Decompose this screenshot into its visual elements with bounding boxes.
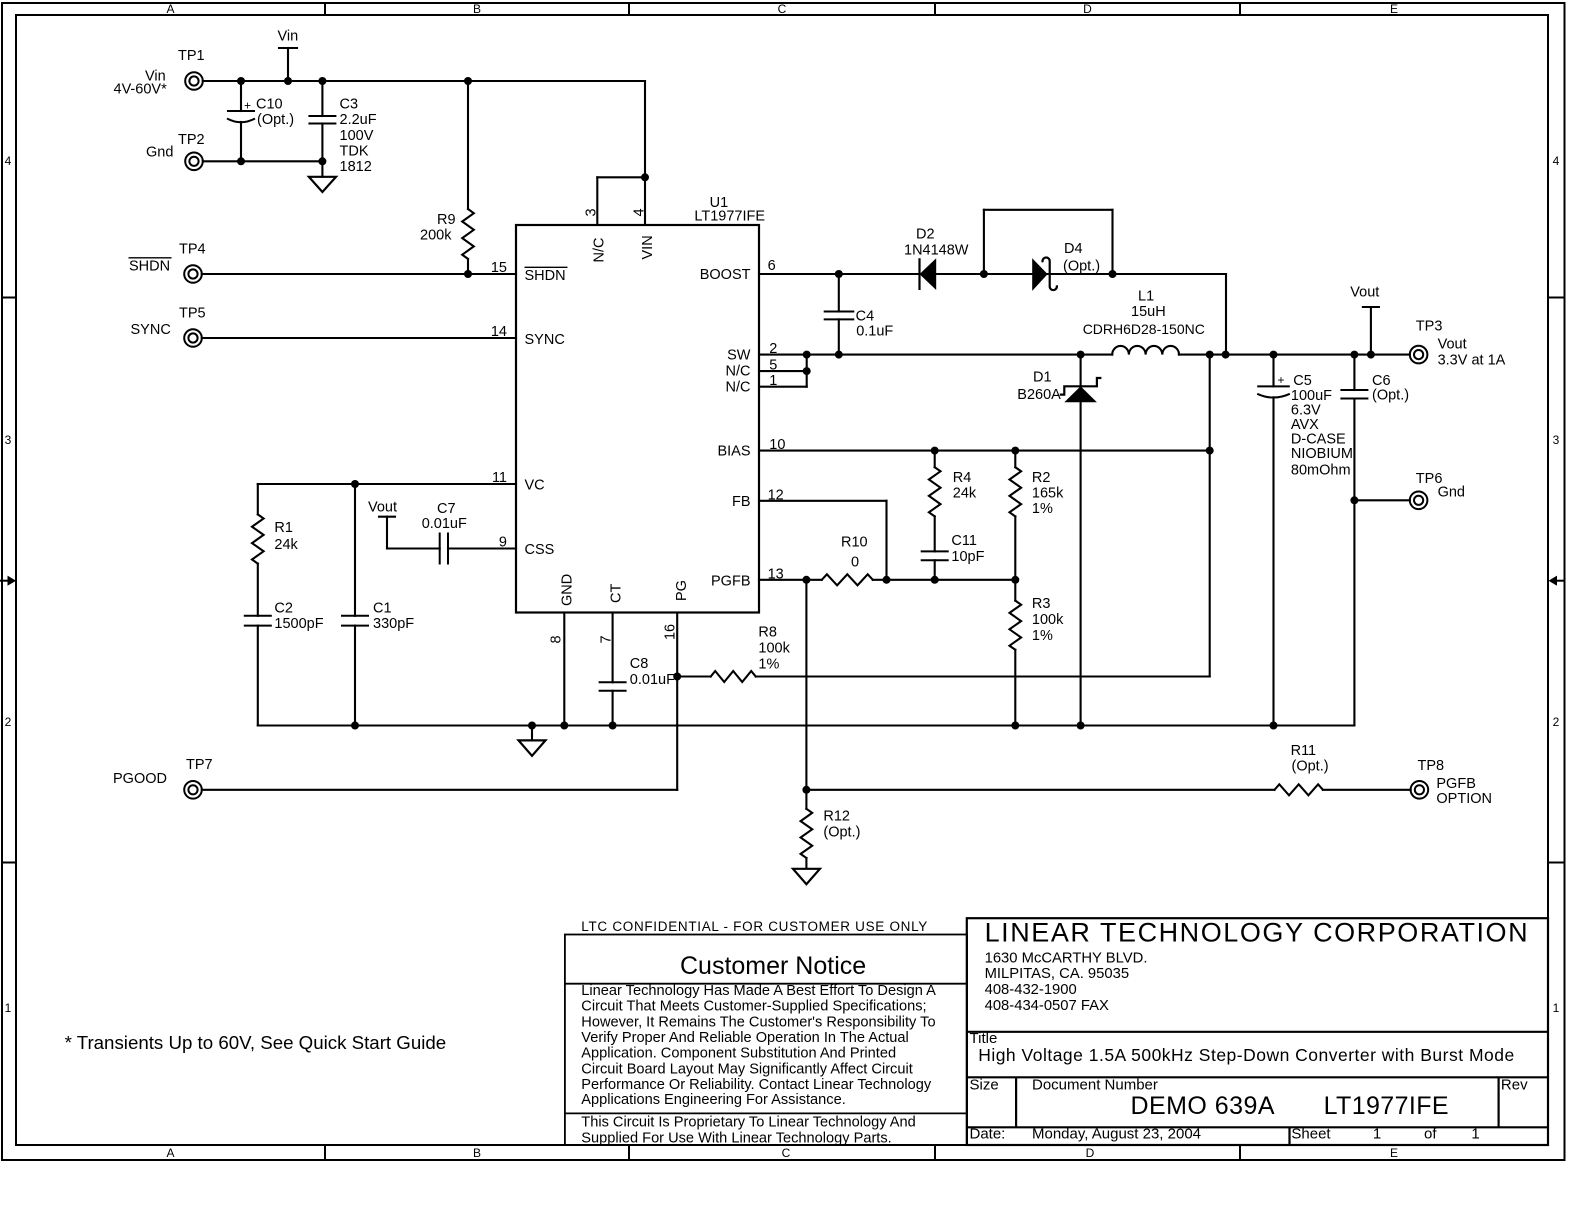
svg-text:1: 1 <box>5 1001 12 1015</box>
svg-text:2: 2 <box>1553 715 1560 729</box>
svg-text:165k: 165k <box>1032 486 1064 502</box>
svg-text:Document Number: Document Number <box>1032 1076 1158 1093</box>
svg-text:This Circuit Is Proprietary To: This Circuit Is Proprietary To Linear Te… <box>581 1115 915 1131</box>
svg-text:TP1: TP1 <box>178 48 205 64</box>
svg-text:(Opt.): (Opt.) <box>823 825 860 841</box>
svg-text:408-434-0507 FAX: 408-434-0507 FAX <box>985 998 1109 1014</box>
U1 pin 14 SYNC <box>491 324 565 348</box>
svg-text:B260A: B260A <box>1017 387 1061 403</box>
U1 pin 6 BOOST <box>700 258 776 283</box>
U1 pin 8 GND (bottom) <box>549 574 576 644</box>
svg-text:TP7: TP7 <box>186 757 213 773</box>
svg-text:C: C <box>782 1146 791 1160</box>
svg-text:408-432-1900: 408-432-1900 <box>985 982 1077 998</box>
wire N/C pin 3 jog to VIN <box>597 177 645 225</box>
svg-text:4: 4 <box>1553 154 1560 168</box>
svg-text:Vin: Vin <box>278 29 299 45</box>
svg-text:Gnd: Gnd <box>146 145 173 161</box>
svg-text:R3: R3 <box>1032 596 1051 612</box>
svg-text:24k: 24k <box>274 537 298 553</box>
svg-text:3.3V at 1A: 3.3V at 1A <box>1438 353 1506 369</box>
power symbol Vout (at TP3) <box>1350 285 1379 355</box>
svg-text:330pF: 330pF <box>373 616 414 632</box>
resistor R3 100k <box>1010 580 1065 726</box>
wire BIAS net <box>759 447 1214 455</box>
wire GND pin 8 stub <box>563 613 565 726</box>
title block <box>967 918 1548 1145</box>
U1 pin 7 CT (bottom) <box>599 584 625 644</box>
U1 pin 5 N/C <box>726 358 778 380</box>
wire BOOST net <box>759 270 1226 355</box>
svg-text:TP2: TP2 <box>178 132 205 148</box>
svg-text:N/C: N/C <box>726 364 751 380</box>
ground symbol below C3 <box>309 161 336 192</box>
svg-text:A: A <box>166 1146 174 1160</box>
wire VC net <box>258 480 516 514</box>
svg-text:TP5: TP5 <box>179 306 206 322</box>
wire SHDN net <box>202 270 516 278</box>
svg-text:R4: R4 <box>953 470 972 486</box>
diode D1 B260A <box>1017 355 1101 726</box>
svg-text:1: 1 <box>1471 1126 1479 1143</box>
svg-text:C1: C1 <box>373 601 392 617</box>
test point TP3 <box>1410 319 1506 369</box>
U1 pin 11 VC <box>492 470 545 494</box>
svg-text:R10: R10 <box>841 535 868 551</box>
svg-text:PGFB: PGFB <box>711 574 750 590</box>
test point TP4 <box>129 242 206 283</box>
svg-text:Rev: Rev <box>1501 1076 1528 1093</box>
power symbol Vout (at C7) <box>368 500 397 549</box>
svg-text:LT1977IFE: LT1977IFE <box>1324 1092 1449 1120</box>
wire Vin net top rail <box>203 77 649 225</box>
svg-text:24k: 24k <box>953 486 977 502</box>
U1 pin 1 N/C <box>726 373 778 396</box>
svg-text:TP3: TP3 <box>1416 319 1443 335</box>
U1 pin 13 PGFB <box>711 567 784 590</box>
svg-text:C11: C11 <box>951 533 977 549</box>
svg-text:1%: 1% <box>1032 501 1053 517</box>
resistor R9 <box>420 81 474 274</box>
svg-text:R12: R12 <box>823 809 850 825</box>
diode D4 (Opt.) <box>1032 241 1100 291</box>
svg-text:B: B <box>473 1146 481 1160</box>
resistor R4 24k <box>929 451 977 552</box>
test point TP5 <box>131 306 206 347</box>
U1 pin 12 FB <box>732 488 784 511</box>
wire SW / Vout rail <box>759 351 1410 359</box>
U1 pin 15 SHDN <box>491 260 568 284</box>
U1 pin 2 SW <box>727 341 777 364</box>
svg-text:80mOhm: 80mOhm <box>1291 463 1351 479</box>
svg-text:Linear Technology Has Made A B: Linear Technology Has Made A Best Effort… <box>581 983 936 999</box>
svg-text:C8: C8 <box>630 656 649 672</box>
svg-text:C10: C10 <box>256 97 283 113</box>
wire PGFB net (pin 13) <box>759 576 822 584</box>
U1 pin 10 BIAS <box>717 437 785 460</box>
svg-text:SYNC: SYNC <box>131 322 171 338</box>
svg-text:Circuit That Meets Customer-Su: Circuit That Meets Customer-Supplied Spe… <box>581 999 926 1015</box>
svg-text:B: B <box>473 2 481 16</box>
wire SYNC net <box>202 337 516 339</box>
svg-text:CSS: CSS <box>525 542 555 558</box>
svg-text:Vout: Vout <box>368 500 397 516</box>
svg-text:of: of <box>1424 1126 1437 1143</box>
svg-text:+: + <box>1278 373 1285 387</box>
capacitor C11 10pF <box>921 533 985 580</box>
svg-text:SYNC: SYNC <box>525 332 565 348</box>
svg-text:N/C: N/C <box>592 238 608 263</box>
svg-text:BIAS: BIAS <box>717 444 750 460</box>
wire ground rail <box>258 722 1355 730</box>
wire N/C pins 5 and 1 tie to SW <box>759 355 811 387</box>
svg-text:16: 16 <box>662 624 678 640</box>
svg-text:100V: 100V <box>340 128 374 144</box>
svg-text:VIN: VIN <box>640 235 656 259</box>
svg-text:1: 1 <box>1373 1126 1381 1143</box>
diode D2 1N4148W <box>904 227 969 291</box>
svg-text:Verify Proper And Reliable Ope: Verify Proper And Reliable Operation In … <box>581 1030 908 1046</box>
test point TP6 <box>1410 471 1465 509</box>
resistor R2 165k <box>1010 451 1065 580</box>
svg-text:2: 2 <box>5 715 12 729</box>
svg-text:1812: 1812 <box>340 159 372 175</box>
svg-text:1%: 1% <box>758 657 779 673</box>
svg-text:2.2uF: 2.2uF <box>340 112 377 128</box>
svg-text:TP4: TP4 <box>179 242 206 258</box>
wire Gnd net (TP2 to C3) <box>203 157 327 165</box>
note transients <box>65 1032 447 1053</box>
svg-text:3: 3 <box>5 433 12 447</box>
svg-text:Customer Notice: Customer Notice <box>680 952 866 980</box>
svg-text:Supplied For Use With Linear T: Supplied For Use With Linear Technology … <box>581 1130 891 1146</box>
ground symbol below R12 <box>793 869 820 884</box>
svg-text:Monday, August 23, 2004: Monday, August 23, 2004 <box>1032 1126 1201 1143</box>
svg-text:C3: C3 <box>340 97 359 113</box>
U1 pin 3 N/C (top) <box>584 208 608 262</box>
svg-text:FB: FB <box>732 494 751 510</box>
capacitor C2 1500pF <box>244 601 324 726</box>
wire PGFB vertical down <box>802 580 810 794</box>
svg-text:Size: Size <box>970 1076 999 1093</box>
svg-text:C2: C2 <box>274 601 293 617</box>
svg-text:(Opt.): (Opt.) <box>257 112 294 128</box>
svg-text:6: 6 <box>768 258 776 274</box>
svg-text:A: A <box>166 2 174 16</box>
svg-text:4V-60V*: 4V-60V* <box>114 82 168 98</box>
wire D4 bypass loop <box>984 210 1113 274</box>
svg-text:E: E <box>1390 2 1398 16</box>
svg-text:LTC CONFIDENTIAL - FOR CUSTOME: LTC CONFIDENTIAL - FOR CUSTOMER USE ONLY <box>581 919 927 934</box>
capacitor C5 100uF <box>1257 355 1353 726</box>
svg-text:L1: L1 <box>1138 289 1154 305</box>
svg-text:(Opt.): (Opt.) <box>1292 759 1329 775</box>
resistor R12 (Opt.) <box>801 790 861 869</box>
svg-text:D2: D2 <box>916 227 935 243</box>
svg-text:15: 15 <box>491 260 507 276</box>
ground symbol on rail <box>519 726 546 756</box>
svg-text:0: 0 <box>851 555 859 571</box>
svg-text:Applications Engineering For A: Applications Engineering For Assistance. <box>581 1092 845 1108</box>
svg-text:N/C: N/C <box>726 380 751 396</box>
test point TP2 <box>146 132 205 170</box>
svg-text:TP8: TP8 <box>1418 758 1445 774</box>
wire BIAS vertical down to R8 line <box>756 355 1210 677</box>
svg-text:D: D <box>1086 1146 1095 1160</box>
svg-text:R11: R11 <box>1291 743 1317 759</box>
wire PGFB option line to TP8 <box>806 789 1410 791</box>
svg-text:C5: C5 <box>1293 373 1312 389</box>
svg-text:R8: R8 <box>758 625 777 641</box>
svg-text:Application. Component Substit: Application. Component Substitution And … <box>581 1046 896 1062</box>
svg-text:3: 3 <box>1553 433 1560 447</box>
svg-text:(Opt.): (Opt.) <box>1372 388 1409 404</box>
svg-text:Circuit Board Layout May Signi: Circuit Board Layout May Significantly A… <box>581 1061 912 1077</box>
test point TP7 <box>113 757 213 799</box>
svg-text:4: 4 <box>632 208 648 216</box>
svg-text:Gnd: Gnd <box>1438 485 1465 501</box>
svg-text:However, It Remains The Custom: However, It Remains The Customer's Respo… <box>581 1014 935 1030</box>
resistor R8 100k <box>677 625 790 683</box>
svg-text:OPTION: OPTION <box>1436 791 1492 807</box>
op-amp/IC U1 LT1977IFE body <box>516 195 765 613</box>
svg-text:14: 14 <box>491 324 507 340</box>
svg-text:1%: 1% <box>1032 628 1053 644</box>
svg-text:R2: R2 <box>1032 470 1051 486</box>
svg-text:Date:: Date: <box>970 1126 1006 1143</box>
svg-text:1N4148W: 1N4148W <box>904 242 969 258</box>
svg-text:LT1977IFE: LT1977IFE <box>694 209 765 225</box>
svg-text:200k: 200k <box>420 228 452 244</box>
svg-text:PGFB: PGFB <box>1436 776 1475 792</box>
svg-text:+: + <box>244 99 251 113</box>
power symbol Vin <box>278 29 299 82</box>
svg-text:SW: SW <box>727 348 751 364</box>
svg-text:C: C <box>778 2 787 16</box>
svg-text:PGOOD: PGOOD <box>113 771 167 787</box>
svg-text:8: 8 <box>549 635 565 643</box>
svg-text:High Voltage 1.5A 500kHz Step-: High Voltage 1.5A 500kHz Step-Down Conve… <box>978 1045 1514 1065</box>
svg-text:D: D <box>1083 2 1092 16</box>
capacitor C1 330pF <box>341 484 414 726</box>
svg-text:R9: R9 <box>437 212 456 228</box>
svg-text:TDK: TDK <box>340 143 369 159</box>
svg-text:0.01uF: 0.01uF <box>422 516 467 532</box>
svg-text:0.01uF: 0.01uF <box>630 672 675 688</box>
svg-text:Sheet: Sheet <box>1291 1126 1331 1143</box>
svg-text:C4: C4 <box>856 308 875 324</box>
svg-text:1630 McCARTHY BLVD.: 1630 McCARTHY BLVD. <box>985 951 1148 967</box>
test point TP8 <box>1411 758 1492 807</box>
svg-text:DEMO 639A: DEMO 639A <box>1131 1092 1275 1120</box>
svg-text:CDRH6D28-150NC: CDRH6D28-150NC <box>1083 321 1205 337</box>
inductor L1 15uH <box>1083 289 1205 355</box>
svg-text:LINEAR TECHNOLOGY CORPORATION: LINEAR TECHNOLOGY CORPORATION <box>985 918 1528 948</box>
capacitor C8 0.01uF (CT pin 7) <box>599 613 675 726</box>
capacitor C3 <box>308 81 376 175</box>
svg-text:Vout: Vout <box>1438 337 1467 353</box>
svg-text:C7: C7 <box>437 501 456 517</box>
svg-text:100k: 100k <box>758 641 790 657</box>
svg-text:Vout: Vout <box>1350 285 1379 301</box>
svg-text:BOOST: BOOST <box>700 267 751 283</box>
svg-text:(Opt.): (Opt.) <box>1063 259 1100 275</box>
svg-text:100k: 100k <box>1032 612 1064 628</box>
U1 pin 16 PG (bottom) <box>662 580 690 640</box>
svg-text:PG: PG <box>674 580 690 601</box>
resistor R11 (Opt.) <box>1275 743 1329 795</box>
test point TP1 <box>114 48 205 98</box>
capacitor C7 0.01uF <box>387 501 516 565</box>
capacitor C6 (Opt.) <box>1340 355 1409 726</box>
customer notice block <box>565 919 967 1146</box>
capacitor C4 <box>824 274 894 355</box>
svg-text:* Transients Up to 60V, See Qu: * Transients Up to 60V, See Quick Start … <box>65 1032 447 1053</box>
svg-text:1500pF: 1500pF <box>274 616 323 632</box>
svg-text:SHDN: SHDN <box>525 268 566 284</box>
svg-text:SHDN: SHDN <box>129 258 170 274</box>
wire TP6 Gnd stub <box>1354 499 1409 501</box>
svg-text:15uH: 15uH <box>1131 304 1166 320</box>
U1 pin 9 CSS <box>499 535 554 559</box>
resistor R10 0 <box>822 535 887 586</box>
svg-text:CT: CT <box>609 584 625 603</box>
svg-text:0.1uF: 0.1uF <box>856 324 893 340</box>
svg-text:E: E <box>1390 1146 1398 1160</box>
svg-text:NIOBIUM: NIOBIUM <box>1291 446 1353 462</box>
svg-text:R1: R1 <box>274 520 293 536</box>
svg-text:MILPITAS, CA. 95035: MILPITAS, CA. 95035 <box>985 966 1129 982</box>
U1 pin 4 VIN (top) <box>632 208 657 259</box>
wire FB net <box>759 501 1019 584</box>
svg-text:Performance Or Reliability. Co: Performance Or Reliability. Contact Line… <box>581 1077 932 1093</box>
svg-text:D4: D4 <box>1064 241 1083 257</box>
svg-text:10pF: 10pF <box>951 549 984 565</box>
svg-text:4: 4 <box>5 154 12 168</box>
capacitor C10 <box>227 81 294 161</box>
svg-text:VC: VC <box>525 478 545 494</box>
resistor R1 24k <box>252 514 299 615</box>
svg-text:1: 1 <box>1553 1001 1560 1015</box>
wire PG net (pin 16 down to TP7 line) <box>202 613 681 790</box>
svg-text:D1: D1 <box>1033 370 1052 386</box>
svg-text:GND: GND <box>560 574 576 606</box>
